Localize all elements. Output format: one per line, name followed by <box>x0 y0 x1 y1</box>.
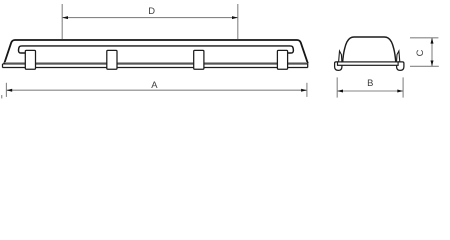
end view right clip <box>397 51 400 62</box>
dimension B left arrowhead <box>337 90 343 93</box>
dimension C bottom extension line <box>410 65 439 67</box>
dimension D line <box>62 17 238 19</box>
front view base lip <box>5 62 308 64</box>
lamp holder tab 3 <box>194 50 204 69</box>
dimension D extension line right <box>237 4 239 39</box>
dimension C bottom arrowhead <box>431 61 434 67</box>
dimension D extension line left <box>61 4 63 39</box>
dimension A tick right <box>306 83 308 97</box>
dimension B line <box>337 90 403 92</box>
svg-text:D: D <box>148 5 155 16</box>
dimension C top extension line <box>410 37 438 39</box>
svg-text:B: B <box>367 77 373 88</box>
dimension B extension line left <box>336 77 338 97</box>
dimension A right arrowhead <box>301 89 307 92</box>
lamp holder tab 4 <box>277 50 287 69</box>
lamp holder tab 1 <box>25 50 35 69</box>
svg-text:A: A <box>151 79 158 90</box>
dimension C line <box>431 38 433 67</box>
front view inner contour line <box>18 46 293 53</box>
end view left foot <box>335 62 342 71</box>
dimension A tick left <box>5 83 7 97</box>
lamp holder tab 2 <box>107 50 117 69</box>
dimension B right arrowhead <box>397 90 403 93</box>
end view right foot <box>397 62 404 71</box>
dimension C top arrowhead <box>431 38 434 44</box>
dimension B extension line right <box>402 77 404 97</box>
dimension D left arrowhead <box>62 16 68 19</box>
dimension A left arrowhead <box>6 89 12 92</box>
front view body outline <box>4 40 308 64</box>
end view base bar <box>338 62 399 65</box>
svg-text:C: C <box>414 49 425 56</box>
end view left clip <box>339 51 342 62</box>
dimension A line <box>6 89 307 91</box>
stray mark bottom left <box>1 95 2 98</box>
end view dome <box>343 37 396 62</box>
dimension D right arrowhead <box>232 16 238 19</box>
